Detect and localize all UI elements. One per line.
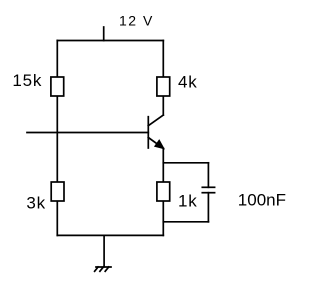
svg-text:4k: 4k: [178, 72, 198, 91]
svg-text:100nF: 100nF: [238, 191, 286, 210]
svg-text:3k: 3k: [26, 193, 46, 212]
svg-text:12 V: 12 V: [119, 12, 154, 28]
svg-text:1k: 1k: [178, 191, 198, 210]
svg-text:15k: 15k: [12, 71, 42, 90]
